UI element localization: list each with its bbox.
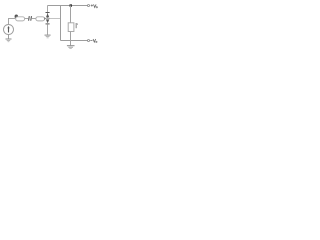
wire R2 to junction to vertical riser <box>46 18 61 20</box>
wire D2 to ground <box>47 24 49 34</box>
resistor R1 <box>16 17 25 21</box>
wire riser node to top rail <box>47 6 49 19</box>
arrowhead on input wire <box>15 15 19 19</box>
terminal - (open circle, bottom right) <box>88 40 90 42</box>
label + <box>91 4 93 6</box>
wire R1 to C1 <box>25 18 29 20</box>
bottom rail wire <box>61 40 88 42</box>
ground (under diode D2) <box>45 35 51 39</box>
label v_o (bottom) <box>93 39 97 43</box>
diode D1 (node to top rail) <box>46 12 50 17</box>
label v_o (top) <box>94 4 98 8</box>
wire from source bottom to ground <box>8 35 10 39</box>
terminal + (open circle, top right) <box>88 5 90 7</box>
wire left return (vertical, top rail to bottom rail) <box>60 6 62 41</box>
resistor R3 (load box) <box>68 23 74 32</box>
label - <box>90 39 92 42</box>
top rail wire <box>48 5 88 7</box>
label R3 <box>76 23 78 28</box>
wire node A to R3 <box>70 6 72 23</box>
resistor R2 <box>36 17 45 21</box>
node A junction dot on top rail <box>70 4 73 7</box>
ground (under bottom rail) <box>67 41 75 49</box>
wire C1 to R2 <box>32 18 36 20</box>
ground (under source) <box>6 39 12 43</box>
arrowhead after R2 <box>44 17 46 20</box>
current source I1 <box>4 25 14 35</box>
wire from source top to node, corner at left <box>9 19 16 25</box>
wire R3 to bottom rail <box>70 32 72 41</box>
diode D2 (node to ground) <box>46 19 50 24</box>
capacitor C1 <box>28 16 32 21</box>
